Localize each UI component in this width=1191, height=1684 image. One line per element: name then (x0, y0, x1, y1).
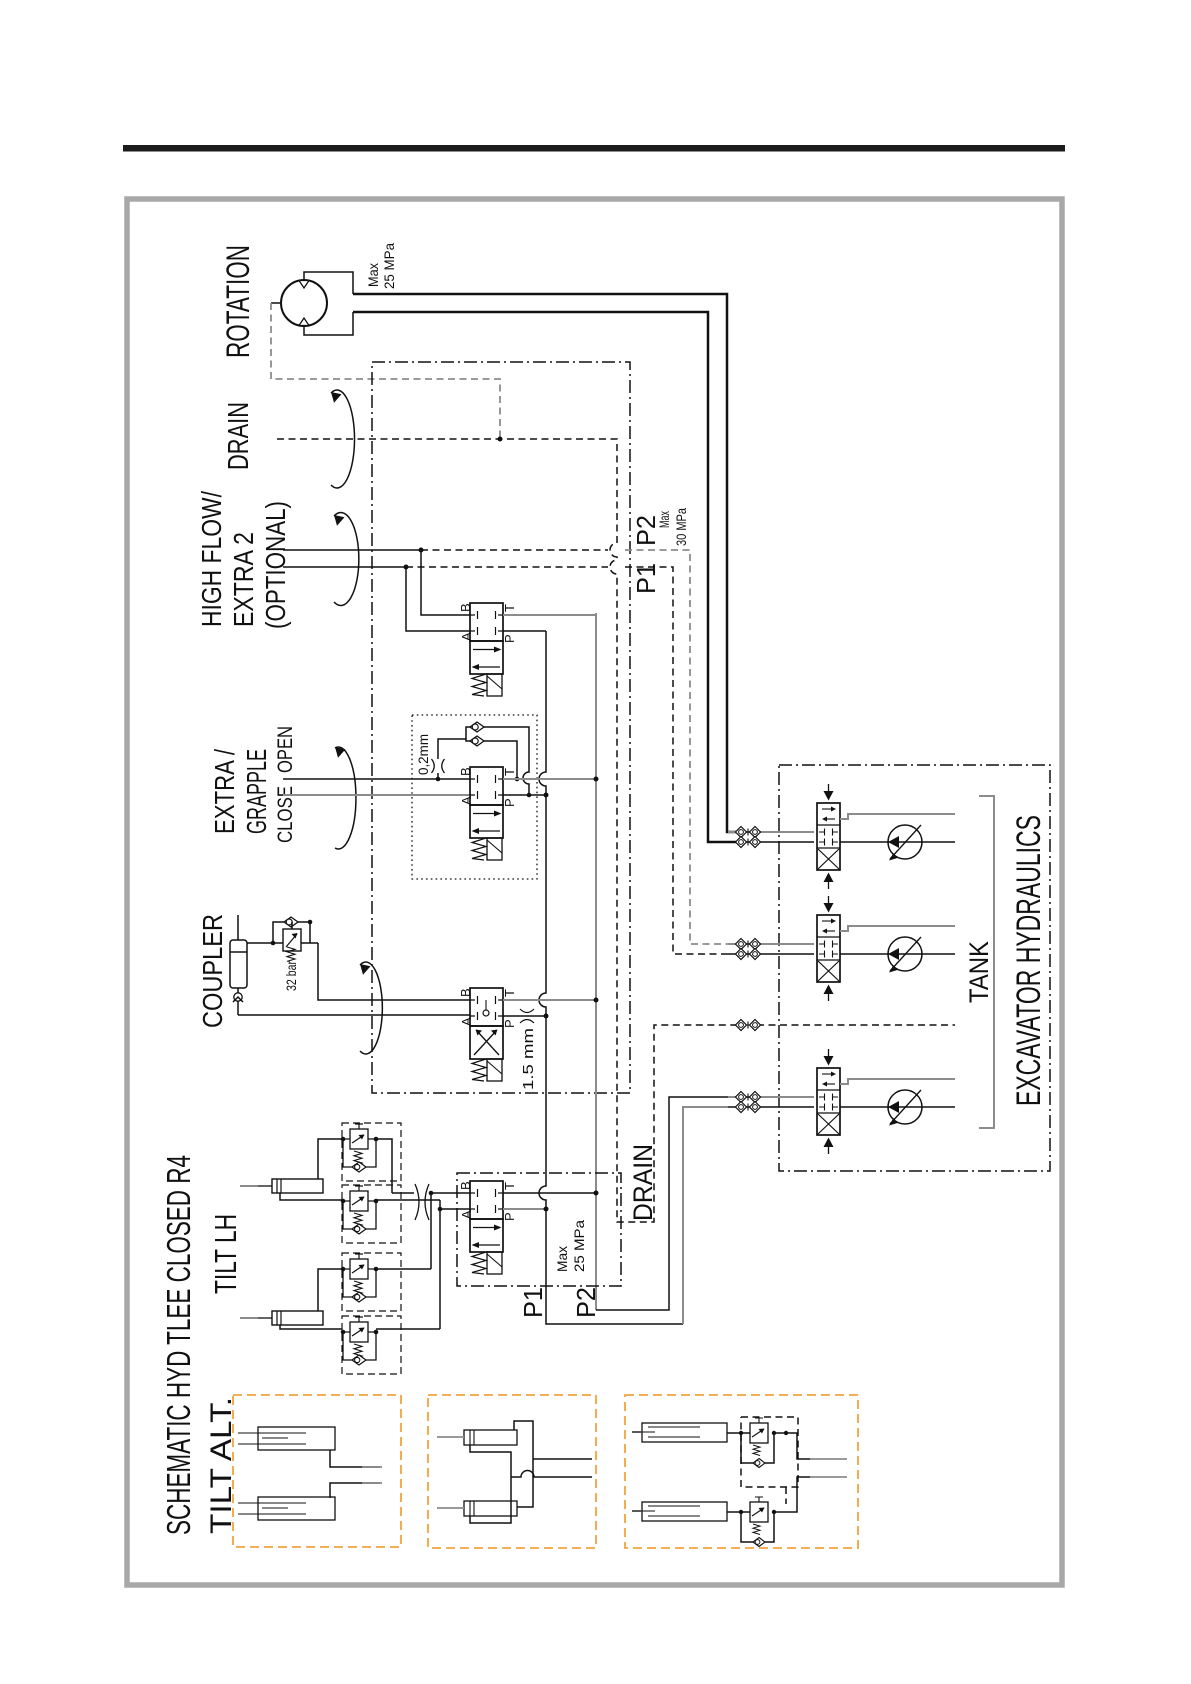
wire tilt A collector (440, 1200, 470, 1329)
wire alt3 pilot link (dashed) (741, 1417, 798, 1504)
wire cyl1 rod to CB2 (280, 1193, 342, 1200)
wire tank return bus T (gray) (595, 613, 597, 1310)
svg-text:EXTRA 2: EXTRA 2 (228, 532, 259, 627)
wire coupler A line (238, 1014, 470, 1016)
quick coupler pair on drain line (736, 1020, 761, 1031)
svg-text:0,2mm: 0,2mm (415, 734, 431, 775)
wire CB1 out (376, 1139, 392, 1193)
svg-text:TANK: TANK (964, 941, 994, 1003)
svg-text:A: A (459, 796, 474, 805)
wire cyl2 cap to CB3 (318, 1269, 342, 1311)
svg-text:P: P (502, 798, 517, 807)
wire CB4 out (376, 1328, 440, 1330)
wire TILT valve T to bus (503, 1192, 596, 1194)
svg-text:TILT LH: TILT LH (208, 1214, 243, 1294)
orifice 0,2mm on pilot branch (432, 759, 445, 773)
svg-text:P: P (502, 1019, 517, 1028)
svg-text:HIGH FLOW/: HIGH FLOW/ (196, 491, 227, 627)
excavator hydraulics boundary (dash-dot) (779, 765, 1050, 1171)
wire check valves loop (466, 727, 529, 795)
cylinder ALT2-A (437, 1430, 517, 1445)
svg-text:P: P (502, 1212, 517, 1221)
wire DRAIN line (dashed): hose to tank via drain box (277, 439, 737, 1222)
pump group 1 (rotation circuit) (728, 784, 955, 889)
svg-text:30 MPa: 30 MPa (674, 508, 689, 546)
valve V1 HIGH FLOW (4/2 solenoid) (470, 603, 503, 696)
pump group 2 (high flow option) (728, 896, 955, 1001)
cylinder ALT3-A (632, 1423, 727, 1442)
svg-text:GRAPPLE: GRAPPLE (241, 749, 272, 834)
node tilt B tee (429, 1191, 434, 1196)
svg-text:B: B (458, 603, 473, 612)
wire coupler B line (318, 943, 470, 1000)
tilt valve boundary (dash-dot) (457, 1173, 621, 1286)
cylinder CYL1 (tilt) (240, 1179, 323, 1193)
wire TILT valve P to bus (gray) (503, 1208, 546, 1210)
wire motor top port to supply (304, 272, 353, 294)
counterbalance ALT3-B (727, 1477, 810, 1547)
svg-text:P1: P1 (518, 1287, 548, 1318)
wire CB3 out (376, 1268, 431, 1270)
wire HF valve T to tank bus (gray) (503, 614, 596, 616)
svg-text:25 MPa: 25 MPa (571, 1220, 587, 1272)
grapple holding circuit boundary (dotted) (412, 715, 537, 879)
svg-text:A: A (459, 632, 474, 641)
tilt alternative option box 3 (orange dashed) (625, 1395, 858, 1548)
wire COUPLER valve P to bus (503, 1015, 546, 1017)
valve V4 TILT (4/2 solenoid) (470, 1181, 503, 1274)
svg-text:A: A (459, 1210, 474, 1219)
svg-text:T: T (502, 604, 517, 612)
wire rotation supply B (thick) (353, 312, 737, 842)
svg-text:EXTRA /: EXTRA / (209, 749, 240, 834)
wire COUPLER valve T to bus (gray) (503, 999, 596, 1001)
wire pressure bus P1 (539, 631, 683, 1324)
valve V3 COUPLER (4/2 solenoid, crossed) (470, 988, 503, 1026)
svg-text:T: T (502, 989, 517, 997)
wire alt1 outputs (330, 1450, 380, 1498)
wire HF to valve B (421, 550, 470, 615)
svg-text:OPEN: OPEN (274, 726, 297, 773)
wire P2 dashed to coupler (421, 549, 608, 551)
cylinder ALT1-A (238, 1427, 335, 1450)
wire EXTRA valve P to bus (503, 794, 546, 796)
wire P2 dashed (gray) down to pump group 2 (625, 550, 728, 944)
check valve CV2 (grapple) (470, 736, 484, 746)
node case drain junction (498, 437, 503, 442)
wire cyl2 rod to CB4 (280, 1325, 342, 1329)
counterbalance block CB2 (341, 1185, 401, 1243)
svg-text:32 bar: 32 bar (283, 961, 299, 991)
svg-text:DRAIN: DRAIN (223, 402, 255, 470)
node TILT T junction (594, 1191, 599, 1196)
hose break COUPLER T/P (520, 1009, 534, 1023)
cylinder CYL2 (tilt) (240, 1311, 323, 1325)
node tilt A tee (438, 1207, 443, 1212)
svg-text:B: B (458, 988, 473, 997)
hose arc COUPLER (360, 962, 382, 1054)
wire EXTRA OPEN line (283, 778, 470, 780)
check valve CV3 (below accumulator) (237, 988, 239, 993)
manifold boundary (dash-dot box) (372, 362, 630, 1093)
wire CB2 out (376, 1199, 440, 1201)
svg-text:ROTATION: ROTATION (220, 245, 256, 358)
svg-text:P2: P2 (571, 1287, 601, 1318)
node grapple P tee (527, 793, 532, 798)
svg-text:A: A (459, 1017, 474, 1026)
wire HF valve P to pressure bus (503, 630, 546, 632)
svg-text:P1: P1 (631, 563, 661, 594)
wire motor case drain stub (271, 302, 281, 304)
node HF P2 junction (419, 548, 424, 553)
counterbalance ALT3-A (727, 1418, 810, 1468)
svg-text:Max: Max (554, 1246, 570, 1272)
hose arc EXTRA (335, 747, 356, 849)
svg-text:(OPTIONAL): (OPTIONAL) (260, 501, 291, 629)
accumulator ACC (230, 940, 247, 988)
relief valve RV1 32 bar (283, 929, 301, 951)
svg-text:1.5 mm: 1.5 mm (520, 1028, 537, 1090)
wire coupler pilot network (247, 922, 318, 943)
svg-text:SCHEMATIC HYD TLEE CLOSED R4: SCHEMATIC HYD TLEE CLOSED R4 (160, 1155, 197, 1535)
tilt alternative option box 2 (orange dashed) (428, 1395, 596, 1548)
cylinder ALT2-B (437, 1501, 517, 1516)
wire HIGH FLOW line P2 (solid) (283, 549, 421, 551)
check valve CV1 (grapple) (470, 722, 484, 732)
wire grapple pilot branch (438, 739, 466, 779)
cylinder ALT3-B (632, 1502, 727, 1521)
wire cyl1 cap to CB1 (318, 1139, 342, 1179)
node TILT P junction (544, 1207, 549, 1212)
hose break TILT A/B (415, 1184, 429, 1220)
svg-text:Max: Max (657, 511, 672, 528)
svg-text:T: T (502, 1182, 517, 1190)
wire HF to valve A (406, 567, 470, 631)
tilt alternative option box 1 (orange dashed) (233, 1395, 401, 1547)
wire motor bottom port to supply (304, 312, 353, 335)
node coupler tees (271, 941, 276, 946)
wire accumulator to A line (237, 1001, 239, 1015)
svg-text:DRAIN: DRAIN (628, 1144, 658, 1221)
counterbalance block CB4 (341, 1316, 401, 1374)
svg-text:COUPLER: COUPLER (197, 914, 228, 1028)
pump group 3 (main P1) (728, 1049, 955, 1154)
svg-text:T: T (502, 768, 517, 776)
wire motor case drain (gray dashed) (271, 303, 500, 439)
counterbalance block CB1 (341, 1123, 401, 1181)
hose arc HIGH FLOW (334, 512, 359, 605)
wire rotation supply A (thick) (353, 294, 737, 832)
wire P1 dashed to coupler (406, 566, 608, 568)
motor M1 rotation (281, 280, 327, 326)
node pilot tee (436, 777, 441, 782)
svg-text:25 MPa: 25 MPa (381, 243, 397, 289)
node COUPLER T junction (594, 998, 599, 1003)
node EXTRA T junction (594, 777, 599, 782)
counterbalance block CB3 (341, 1253, 401, 1311)
cylinder ALT1-B (238, 1497, 335, 1520)
tank bracket (979, 796, 994, 1128)
svg-text:B: B (458, 767, 473, 776)
hose arc DRAIN (331, 390, 355, 488)
svg-text:P: P (502, 634, 517, 643)
wire tilt B collector (392, 1193, 470, 1269)
node COUPLER P junction (544, 1014, 549, 1019)
node EXTRA P junction (544, 793, 549, 798)
svg-text:EXCAVATOR HYDRAULICS: EXCAVATOR HYDRAULICS (1010, 815, 1048, 1106)
node HF P1 junction (404, 565, 409, 570)
node grapple T tee (515, 777, 520, 782)
header rule bar (123, 145, 1065, 152)
valve V2 EXTRA/GRAPPLE (4/2 solenoid) (470, 767, 503, 860)
wire alt3 outputs (gray) (810, 1459, 847, 1477)
page frame (127, 199, 1062, 1585)
check valve CV4 (coupler bypass) (284, 917, 298, 927)
svg-text:B: B (458, 1181, 473, 1190)
wire alt2 crossover (514, 1421, 533, 1507)
wire HIGH FLOW line P1 (solid) (283, 566, 406, 568)
wire EXTRA CLOSE line (gray) (283, 794, 470, 796)
svg-text:Max: Max (365, 263, 381, 287)
wire P1 dashed down to pump group 2 (625, 567, 728, 954)
wire EXTRA valve T to bus (gray) (503, 778, 596, 780)
